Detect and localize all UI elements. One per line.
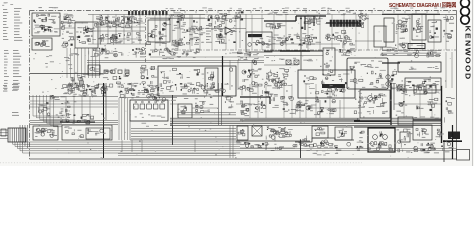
- filler cluster c5: [219, 30, 236, 44]
- parts C3: [215, 29, 225, 44]
- vertical pair P4: [219, 83, 222, 125]
- box P2: [178, 104, 192, 118]
- wire y14 B: [146, 14, 205, 16]
- dense cluster V3: [266, 126, 290, 141]
- parts row H5: [101, 68, 130, 79]
- boost I2b: [167, 82, 229, 92]
- box J2: [205, 68, 218, 90]
- margin col2 low: [13, 79, 18, 82]
- text J0: [247, 53, 250, 56]
- cluster G2: [70, 76, 85, 88]
- wire row1: [88, 14, 145, 16]
- wire K4: [264, 64, 298, 66]
- text E1: [343, 12, 346, 15]
- box B1: [148, 20, 170, 42]
- dark box X1: [368, 128, 395, 152]
- vertical drops A: [93, 15, 140, 45]
- label col D4: [274, 34, 279, 37]
- box E3: [374, 26, 386, 47]
- filler cluster d2: [172, 38, 182, 46]
- U201 left verticals: [119, 98, 127, 140]
- filler cluster c15: [415, 51, 440, 58]
- margin col2 mid: [13, 49, 18, 52]
- cluster J3: [242, 68, 262, 86]
- F2 boost: [397, 21, 408, 38]
- parts Q1: [240, 86, 258, 96]
- transistor row C: [208, 13, 232, 23]
- box A3: [75, 22, 98, 48]
- box Y1: [413, 125, 432, 140]
- vertical M7: [446, 52, 452, 88]
- thick cluster D3: [300, 16, 323, 30]
- box C4 header: [246, 32, 272, 52]
- vertical fan wires: [67, 48, 99, 78]
- filler cluster c12: [237, 52, 258, 65]
- bus fan left: [10, 142, 240, 153]
- verticals IC drop: [122, 140, 142, 152]
- parts X2: [356, 131, 364, 149]
- cluster E4: [325, 30, 349, 40]
- left h-lines: [30, 97, 119, 108]
- wire V4: [236, 140, 310, 142]
- parts D2: [266, 23, 285, 29]
- dark node Y3: [443, 125, 462, 162]
- parts C2: [232, 11, 243, 21]
- filler wires c9: [88, 15, 456, 45]
- dark line X0: [354, 126, 413, 128]
- page number box: [457, 150, 470, 161]
- filler cluster c1: [61, 36, 74, 48]
- vertical trunk x172: [172, 95, 174, 145]
- parts Y2: [436, 129, 444, 137]
- band cluster: [56, 112, 94, 119]
- text under U201: [164, 123, 167, 126]
- front-end parts row: [95, 16, 138, 29]
- filler hwires c22: [170, 104, 441, 108]
- wires M1: [382, 50, 441, 52]
- parts S5: [396, 101, 407, 113]
- filler cluster d5: [293, 142, 351, 151]
- margin col1 low: [4, 79, 8, 82]
- box S2: [360, 90, 390, 118]
- filler cluster e1: [176, 37, 200, 46]
- box Z2: [33, 126, 58, 140]
- box A2: [32, 38, 52, 50]
- filler cluster d7: [209, 21, 222, 31]
- sub-board box PLL: [32, 13, 60, 36]
- fan area parts: [45, 55, 72, 69]
- tall box L1: [323, 48, 335, 75]
- S4 boost: [400, 85, 410, 94]
- margin text col5: [12, 111, 18, 114]
- thick wire Q2: [240, 97, 270, 104]
- wide box M3: [398, 62, 441, 72]
- staircase wire W3: [295, 138, 354, 142]
- big box L3: [347, 58, 388, 89]
- dense cluster K6: [265, 68, 289, 88]
- dark band N7: [60, 119, 95, 124]
- main bus dark seg2: [240, 119, 360, 121]
- filler cluster c4: [147, 30, 167, 44]
- bus H3: [87, 60, 264, 62]
- dense boost V3b: [267, 129, 293, 137]
- transistors M4: [386, 71, 397, 86]
- box Z3: [62, 125, 112, 140]
- corner label: [4, 1, 8, 4]
- filler cluster c3: [100, 20, 141, 28]
- wire V5: [240, 145, 295, 151]
- thick vertical T2: [441, 86, 443, 143]
- vertical trunk bottom: [300, 140, 302, 158]
- tiny header text: [52, 6, 56, 9]
- box H4: [88, 65, 100, 75]
- box F3: [412, 14, 426, 40]
- dense boost K6b: [266, 73, 285, 90]
- filler cluster c14: [182, 49, 200, 57]
- box M5: [405, 78, 441, 90]
- filler cluster c21: [357, 142, 393, 151]
- cluster P1: [181, 84, 214, 99]
- boost row2: [98, 33, 142, 44]
- text D1: [270, 12, 273, 15]
- top tick row: [152, 11, 449, 14]
- page edge line: [472, 0, 474, 166]
- label col C: [206, 24, 210, 27]
- dark label bar R1: [322, 84, 345, 88]
- svg-text:SCHEMATIC DIAGRAM / 回路図: SCHEMATIC DIAGRAM / 回路図: [389, 1, 456, 9]
- dark seg d4: [382, 14, 440, 48]
- PLL parts: [35, 14, 60, 32]
- parts N6: [61, 101, 77, 113]
- schematic sheet area: [30, 11, 457, 160]
- boost N4b: [63, 84, 106, 96]
- wire F5: [382, 14, 456, 16]
- wires Z1: [0, 129, 8, 131]
- filler cluster c11: [296, 33, 321, 45]
- cluster W4: [298, 136, 310, 146]
- xbox K5: [286, 60, 299, 65]
- filler cluster d1: [172, 20, 202, 33]
- horizontal board divider: [150, 49, 456, 51]
- vertical drops J4: [230, 60, 252, 90]
- boost A2 area: [64, 14, 76, 23]
- bus box U1: [398, 117, 413, 125]
- vertical drops B: [160, 15, 192, 47]
- boost A parts: [33, 15, 55, 33]
- connector CN1: [8, 128, 26, 142]
- wire row2: [87, 30, 145, 32]
- box F1: [384, 18, 394, 42]
- filler cluster c19: [354, 93, 364, 114]
- boost A3 area: [76, 28, 96, 43]
- wire y28 C: [205, 28, 246, 30]
- thick vertical J1: [222, 56, 224, 96]
- op-amp U1: [225, 27, 232, 34]
- parts L2: [339, 48, 355, 56]
- thick line K1: [264, 50, 323, 52]
- left edge box: [1, 129, 6, 136]
- parts H1: [93, 48, 106, 53]
- filler cluster d10: [314, 107, 336, 115]
- speckle noise: [33, 13, 452, 159]
- text S1: [382, 86, 387, 89]
- parts Q4: [281, 85, 296, 113]
- cluster T1: [414, 84, 439, 94]
- boost row1: [99, 15, 143, 26]
- dense cluster N4: [61, 84, 108, 97]
- margin text col1: [3, 8, 7, 11]
- parts F7: [443, 16, 454, 42]
- margin text col2: [14, 7, 21, 10]
- cluster W5: [320, 140, 329, 148]
- box A3 parts: [77, 26, 96, 44]
- box W2: [335, 127, 352, 140]
- box V1: [237, 126, 248, 140]
- filler bus right: [240, 148, 456, 150]
- vertical trunk d3: [300, 16, 302, 70]
- S2 interior boost: [364, 94, 387, 114]
- main bus dark seg: [354, 120, 391, 122]
- boost G2b: [69, 74, 88, 91]
- cluster F2: [396, 18, 411, 39]
- label grid B3: [189, 26, 206, 45]
- text M6: [392, 87, 397, 90]
- sheet border frame: [30, 11, 457, 160]
- cluster H2: [132, 48, 145, 58]
- parts E2: [358, 14, 369, 28]
- box V2: [252, 126, 262, 136]
- dark box F6: [408, 44, 425, 49]
- wire above U201: [119, 97, 177, 99]
- thick vertical N5: [104, 83, 107, 158]
- filler cluster c8: [340, 38, 355, 48]
- filler bus left band: [30, 120, 118, 122]
- filler cluster c16: [150, 96, 176, 102]
- cluster R2: [315, 85, 349, 103]
- vertical bundle left: [20, 125, 28, 148]
- filler cluster c7: [380, 45, 398, 56]
- vertical drops C: [240, 14, 246, 48]
- cluster O1: [118, 84, 164, 99]
- top label dashes: [328, 7, 330, 10]
- wires P6: [177, 112, 236, 114]
- IC U201 block: [130, 100, 168, 121]
- cluster H6: [140, 65, 148, 84]
- filler cluster c6: [267, 37, 288, 46]
- bus band mid: [131, 128, 236, 130]
- text G1: [74, 52, 78, 55]
- text I4: [177, 55, 181, 58]
- text K3: [307, 59, 312, 62]
- front-end parts row2: [99, 33, 121, 45]
- box B1 parts: [151, 22, 171, 37]
- filler cluster c17: [236, 142, 276, 147]
- thick vertical S3: [391, 83, 394, 125]
- parts R3: [295, 103, 316, 115]
- main bus band: [170, 117, 442, 119]
- dotted page bottom: [0, 162, 362, 164]
- filler cluster c18: [296, 100, 313, 111]
- binder rings: [461, 0, 470, 24]
- svg-text:KENWOOD: KENWOOD: [463, 26, 472, 81]
- big box K7: [298, 70, 355, 98]
- parts Y4: [414, 145, 439, 153]
- filler wires c2: [60, 23, 145, 39]
- cluster B2: [169, 13, 185, 21]
- vertical board divider: [145, 11, 147, 63]
- filler cluster d9: [240, 104, 264, 113]
- box W1: [312, 126, 328, 138]
- margin col1 mid: [4, 49, 8, 52]
- box A2 parts: [35, 40, 50, 47]
- filler cluster c20: [421, 142, 453, 153]
- wire K2: [264, 55, 323, 57]
- box F4: [428, 20, 441, 42]
- margin text col4: [12, 83, 18, 86]
- wire d8: [150, 56, 264, 58]
- long bus line y73: [30, 73, 104, 75]
- thick signal path: [264, 16, 326, 21]
- wire E5: [355, 40, 382, 42]
- text W6: [314, 152, 317, 155]
- big box I2: [158, 66, 236, 96]
- connector pin row: [326, 20, 364, 27]
- filler vdrops c10: [155, 15, 446, 51]
- dark band T4: [413, 117, 442, 121]
- filler cluster d6: [444, 97, 455, 123]
- boost bottomleft: [35, 129, 55, 135]
- dark line M: [382, 62, 400, 64]
- text M2: [407, 53, 412, 56]
- U201 left edge drop: [130, 121, 236, 140]
- boost O1b: [120, 87, 160, 97]
- cluster I3: [146, 66, 157, 87]
- cluster P5: [225, 96, 234, 109]
- bus right segment: [195, 125, 233, 158]
- parts T3: [416, 98, 438, 111]
- bus band lower: [118, 153, 236, 155]
- parts between: [61, 20, 73, 34]
- filler vdrops c23: [250, 84, 432, 118]
- vertical fan N1: [33, 95, 62, 127]
- verticals N8: [66, 96, 90, 120]
- cluster S4: [396, 84, 409, 95]
- margin text col3: [3, 84, 7, 87]
- filler cluster c13: [89, 51, 123, 59]
- paper background: [0, 0, 474, 166]
- cluster N2: [38, 102, 51, 116]
- parts D5: [288, 34, 316, 48]
- cluster I1: [149, 48, 179, 56]
- dark top row segment: [128, 11, 168, 15]
- diodes Q5: [240, 101, 250, 117]
- cluster Q3: [255, 90, 279, 109]
- wire y18 B: [146, 17, 205, 19]
- verticals R4: [300, 100, 340, 118]
- parts P3: [195, 101, 213, 113]
- marks N3: [50, 95, 59, 100]
- cluster X3: [397, 129, 413, 153]
- parts H7: [98, 82, 138, 89]
